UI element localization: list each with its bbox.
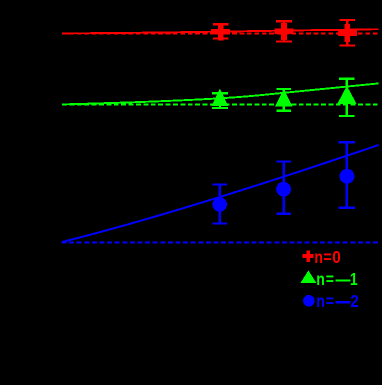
svg-text:0: 0 — [332, 247, 341, 267]
red solid model curve n=0 — [62, 29, 379, 33]
svg-text:=: = — [326, 291, 334, 311]
green triangle marker point 1 — [213, 91, 227, 105]
green error bar point 1 — [212, 93, 228, 108]
svg-text:n: n — [316, 291, 325, 311]
legend green triangle marker — [302, 272, 316, 283]
red error bar point 3 — [340, 20, 356, 46]
green solid model curve n=-1 — [62, 83, 379, 104]
red error bar point 1 — [213, 24, 229, 38]
red plus marker point 1 — [211, 23, 230, 40]
svg-text:=: = — [326, 270, 334, 290]
blue dashed no-evolution line — [62, 242, 379, 244]
blue solid model curve n=-2 — [62, 145, 379, 242]
svg-text:n: n — [316, 270, 325, 290]
legend minus sign row 3 — [336, 301, 351, 303]
legend text n=-2 — [316, 291, 359, 312]
blue error bar point 2 — [276, 162, 291, 214]
green triangle marker point 3 — [339, 88, 356, 104]
legend text n=-1 — [316, 270, 358, 290]
red dashed no-evolution line — [62, 32, 379, 34]
blue error bar point 1 — [213, 185, 228, 224]
red plus marker point 3 — [338, 24, 357, 42]
green error bar point 2 — [276, 89, 291, 111]
green dashed no-evolution line — [62, 103, 379, 105]
svg-text:1: 1 — [350, 270, 358, 290]
green triangle marker point 2 — [276, 91, 291, 106]
legend blue circle marker — [303, 295, 315, 307]
red error bar point 2 — [276, 21, 292, 41]
svg-text:n: n — [314, 247, 323, 267]
blue circle marker point 1 — [212, 197, 227, 212]
blue error bar point 3 — [339, 142, 355, 207]
green error bar point 3 — [339, 79, 354, 116]
blue circle marker point 3 — [340, 169, 355, 184]
legend text n=0 — [314, 247, 340, 268]
svg-text:2: 2 — [350, 291, 358, 312]
svg-text:=: = — [323, 247, 331, 267]
legend red plus marker — [303, 250, 314, 262]
legend minus sign row 2 — [336, 279, 351, 281]
blue circle marker point 2 — [276, 182, 291, 197]
red plus marker point 2 — [275, 23, 294, 40]
